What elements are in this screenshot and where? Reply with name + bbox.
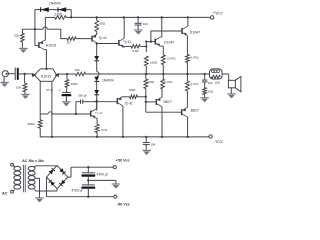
label 0.47 upper#1 xyxy=(167,57,176,61)
label B817 #2 xyxy=(191,108,199,112)
wire chain upper xyxy=(96,44,98,57)
wire Q8 collector to rail xyxy=(187,16,189,26)
ground (speaker) xyxy=(227,88,236,99)
wire 6.8 lower to node xyxy=(138,96,147,98)
wire inductor to speaker xyxy=(222,74,229,80)
wire output line d xyxy=(205,73,210,75)
wire Q2 collector down xyxy=(44,50,46,69)
transistor Q7 D1047 #1 xyxy=(155,37,160,47)
svg-text:AC 26v x 26v: AC 26v x 26v xyxy=(22,159,44,163)
svg-text:+: + xyxy=(59,88,61,92)
resistor 10K tail xyxy=(38,114,42,128)
transistor pair Q1 A1015 (hexagon) xyxy=(32,69,59,82)
svg-text:330 pf: 330 pf xyxy=(78,93,87,97)
wire 330pf right xyxy=(83,101,97,103)
wire Q3coll to Q4 base xyxy=(97,43,119,45)
svg-text:D1047: D1047 xyxy=(164,40,175,44)
wire base line B817#2 xyxy=(146,111,182,113)
wire 2K to Q3 base xyxy=(76,38,92,40)
label 27ohm xyxy=(101,128,107,132)
transistor Q6 Tp42 (lower driver) xyxy=(117,97,122,106)
label A1015 (Q2) xyxy=(46,44,56,48)
label 10K tail xyxy=(28,122,36,126)
terminal -Vcc xyxy=(209,135,212,138)
svg-text:AC: AC xyxy=(2,192,8,196)
resistor 0.47 upper#1 xyxy=(161,55,165,65)
wire Q6 emitter up xyxy=(123,96,130,98)
hop chain over output line xyxy=(97,72,99,77)
label 10ohm zobel xyxy=(207,89,213,93)
svg-text:0.47Ω: 0.47Ω xyxy=(167,57,176,61)
wire secondary top xyxy=(35,166,58,167)
label B817 #1 xyxy=(164,100,172,104)
svg-text:104: 104 xyxy=(143,22,148,26)
wire Q5 emitter down xyxy=(96,118,97,124)
wire bridge + output xyxy=(68,167,114,177)
inductor L1 with damping resistor xyxy=(210,69,223,79)
svg-text:10Ω: 10Ω xyxy=(214,80,220,84)
resistor 10K input bias xyxy=(23,74,27,92)
svg-text:27Ω: 27Ω xyxy=(101,128,107,132)
wire diode branch top xyxy=(35,9,71,11)
capacitor 104 (bottom rail) xyxy=(143,136,150,145)
terminal -50Vcc xyxy=(114,195,117,198)
wire psu mid to ground xyxy=(88,180,116,184)
wire 330pf left xyxy=(75,102,81,115)
wire Q3 emitter to 56ohm xyxy=(96,32,98,35)
wire Q9 emitter up xyxy=(161,89,163,97)
wire Q2 emitter to rail xyxy=(44,17,45,40)
resistor 270ohm (on +rail) xyxy=(55,16,66,20)
svg-text:10K: 10K xyxy=(16,85,21,89)
resistor 0.47 lower#2 xyxy=(186,74,190,91)
svg-text:100Ω: 100Ω xyxy=(70,82,78,86)
svg-text:A1015: A1015 xyxy=(46,44,56,48)
diode D1 1N4004 xyxy=(41,7,49,12)
label AC xyxy=(2,192,8,196)
svg-text:100: 100 xyxy=(74,68,79,72)
transistor Q3 Tp42 xyxy=(92,34,97,43)
wire pair right leg xyxy=(51,81,53,138)
wire 100ohm to outline xyxy=(145,66,147,75)
svg-text:10K: 10K xyxy=(14,34,19,38)
wire output line a xyxy=(67,73,76,75)
node column lower xyxy=(145,97,147,112)
wire Q2 base xyxy=(35,44,39,46)
capacitor 47uf xyxy=(61,87,71,96)
ground (center tap) xyxy=(35,198,44,203)
wire chain lower xyxy=(96,95,98,111)
transformer core xyxy=(24,165,26,193)
wire Q3 collector node xyxy=(96,42,98,44)
transistor Q2 A1015 xyxy=(39,40,44,49)
wire Q8 emitter to R047#2 xyxy=(186,36,188,55)
label 0.47 upper#2 xyxy=(190,55,199,59)
label 47uf xyxy=(46,88,61,93)
node column top x=146.3 xyxy=(145,40,147,52)
wire pair top stem xyxy=(45,68,47,70)
wire output line b xyxy=(86,73,147,75)
svg-text:0.47Ω: 0.47Ω xyxy=(190,82,199,86)
label 2K xyxy=(67,41,71,45)
wire feedback from pair xyxy=(59,73,68,75)
svg-text:Tp 42: Tp 42 xyxy=(125,101,133,105)
label 270ohm xyxy=(54,13,62,17)
wire pair left leg xyxy=(39,81,41,114)
wire +V rail left segment xyxy=(45,16,55,18)
bridge diode top-right xyxy=(59,168,65,174)
svg-text:4700 μf: 4700 μf xyxy=(71,189,82,193)
resistor 0.47 upper#2 xyxy=(186,55,190,63)
capacitor input coupling xyxy=(15,68,19,80)
label 56ohm xyxy=(100,22,106,26)
label 100ohm shunt xyxy=(70,82,78,86)
label 330pf xyxy=(78,93,87,97)
capacitor 104 (top rail) xyxy=(135,16,142,25)
wire Q7 collector to rail xyxy=(161,16,163,37)
capacitor 4700uf #2 xyxy=(81,180,95,197)
speaker xyxy=(228,77,241,92)
svg-text:1N4004: 1N4004 xyxy=(102,78,114,82)
label 10K input xyxy=(16,85,21,89)
label 0.47 lower#2 xyxy=(190,82,199,86)
label -50 Vcc xyxy=(117,202,130,206)
svg-text:+50 Vcc: +50 Vcc xyxy=(116,158,130,162)
svg-text:2K: 2K xyxy=(67,41,71,45)
wire diode-to-rail x=71.2 xyxy=(70,10,72,19)
label 100ohm lower xyxy=(147,80,155,84)
svg-text:0.47Ω: 0.47Ω xyxy=(164,80,173,84)
resistor 100 feedback xyxy=(76,72,86,76)
bridge diode bottom-left xyxy=(49,180,55,186)
ground (input jack) xyxy=(0,77,9,87)
resistor 10K (upper left) xyxy=(21,33,25,42)
wire cap to pair xyxy=(19,73,32,75)
svg-text:56Ω: 56Ω xyxy=(100,22,106,26)
ground (top 104) xyxy=(134,25,143,35)
label 100ohm upper xyxy=(150,61,158,65)
riser to D1047#2 base xyxy=(151,31,182,42)
label 10K (upper left) xyxy=(14,34,19,38)
svg-text:+VCC: +VCC xyxy=(213,10,224,15)
terminal +Vcc xyxy=(211,16,214,19)
transformer primary winding xyxy=(13,165,20,191)
wire Q10 collector down xyxy=(186,117,188,138)
label 6.8ohm lower xyxy=(129,88,136,92)
svg-text:A1015: A1015 xyxy=(41,74,51,78)
input jack xyxy=(2,71,8,77)
label +Vcc xyxy=(213,10,224,15)
label A1015 (pair) xyxy=(41,74,51,78)
wire base node to 2K xyxy=(35,27,67,39)
ground (zobel) xyxy=(200,95,209,103)
label 1N4004 (chain) xyxy=(102,78,114,82)
capacitor 330pf xyxy=(81,100,83,104)
svg-text:6.8Ω: 6.8Ω xyxy=(129,88,136,92)
transistor Q5 (VAS) xyxy=(91,109,96,119)
label Tp42 (Q6) xyxy=(125,101,133,105)
ground (below 10K upper left) xyxy=(19,42,28,53)
terminal +50Vcc xyxy=(113,166,116,169)
transistor Q4 Tp41 xyxy=(119,38,124,48)
label 104 (top) xyxy=(143,22,148,26)
label 6.8ohm upper xyxy=(132,49,139,53)
label D1047 #1 xyxy=(164,40,175,44)
wire Q7 emitter to R047 xyxy=(161,46,164,55)
label 0.47 lower#1 xyxy=(164,80,173,84)
resistor 2K xyxy=(67,37,76,41)
svg-text:1N4004: 1N4004 xyxy=(49,2,61,6)
label 4700uf #2 xyxy=(71,189,82,193)
wire +V rail xyxy=(66,16,210,18)
resistor 27ohm xyxy=(95,125,99,133)
resistor 56ohm xyxy=(95,21,99,32)
svg-text:820Ω: 820Ω xyxy=(28,122,36,126)
resistor 100ohm shunt xyxy=(65,74,69,87)
label 1N4004 (top) xyxy=(49,2,61,6)
label Q5 xyxy=(95,111,103,115)
svg-text:6.8Ω: 6.8Ω xyxy=(132,49,139,53)
transistor Q8 D1047 #2 xyxy=(182,26,187,36)
capacitor 104 zobel xyxy=(202,74,208,82)
diode Db 1N4004 xyxy=(94,77,99,82)
resistor 0.47 lower#1 xyxy=(161,74,165,89)
bridge rectifier diamond xyxy=(47,165,68,188)
svg-text:-50 Vcc: -50 Vcc xyxy=(117,202,130,206)
transformer secondary winding xyxy=(28,166,35,189)
wire jack to cap xyxy=(8,73,15,75)
wire bridge - output xyxy=(47,177,114,197)
ground (input 10K) xyxy=(21,92,30,99)
diode D2 1N4004 xyxy=(58,7,66,12)
label AC 26v x 26v xyxy=(22,159,44,163)
svg-text:D1047: D1047 xyxy=(190,31,201,35)
resistor 10ohm zobel xyxy=(203,82,207,95)
label 104 (bottom) xyxy=(150,143,155,147)
label Tp41 (Q4) xyxy=(123,40,131,44)
ground (47uf) xyxy=(62,96,71,106)
transistor Q9 B817 #1 xyxy=(156,97,161,106)
label 10ohm inductor xyxy=(214,80,220,84)
ground (bottom 104) xyxy=(142,145,151,155)
label 4700uf #1 xyxy=(97,172,108,176)
svg-text:0.47Ω: 0.47Ω xyxy=(190,55,199,59)
wire R047#1 to outline xyxy=(162,65,164,75)
wire secondary bottom xyxy=(35,189,58,191)
wire output line c xyxy=(146,73,206,75)
wire 10K top to base column xyxy=(22,28,36,33)
diode Da 1N4004 xyxy=(94,56,99,61)
wire Q4 emitter to 6.8ohm xyxy=(124,46,131,47)
wire Q5 base line xyxy=(40,112,90,114)
wire tail to rail xyxy=(39,128,41,137)
wire chain mid2 xyxy=(96,81,98,90)
svg-text:47 μf: 47 μf xyxy=(46,88,53,92)
wire center tap xyxy=(35,178,39,198)
diode Dc 1N4004 xyxy=(94,90,99,95)
wire Q10 emitter up xyxy=(186,91,188,108)
wire Q9 collector down xyxy=(161,107,163,139)
wire base line D1047#1 xyxy=(146,40,155,42)
svg-text:Tp 42: Tp 42 xyxy=(99,36,107,40)
resistor 100ohm upper xyxy=(144,56,148,66)
svg-text:104: 104 xyxy=(150,143,155,147)
bridge diode bottom-right xyxy=(59,180,65,186)
wire R047#2 to outline xyxy=(186,63,188,76)
resistor 100ohm lower xyxy=(144,73,148,97)
wire 56ohm to rail xyxy=(96,16,98,20)
label 100 (feedback res) xyxy=(74,68,79,72)
resistor 6.8ohm lower xyxy=(130,95,138,99)
ground (psu mid) xyxy=(112,184,121,189)
svg-text:B817: B817 xyxy=(164,100,172,104)
svg-text:Tp 42: Tp 42 xyxy=(95,111,103,115)
label Tp42 (Q3) xyxy=(99,36,107,40)
svg-text:4700 μf: 4700 μf xyxy=(97,172,108,176)
wire 27ohm to rail xyxy=(96,133,98,139)
label D1047 #2 xyxy=(190,31,201,35)
label -Vcc xyxy=(214,139,224,144)
wire Q6 collector down xyxy=(122,106,124,138)
wire lowdrv base xyxy=(97,101,118,103)
svg-text:Tp 41: Tp 41 xyxy=(123,40,131,44)
resistor 6.8ohm upper xyxy=(131,45,140,49)
svg-text:10Ω: 10Ω xyxy=(207,89,213,93)
wire node base-column x=34.9 xyxy=(34,10,36,46)
svg-text:B817: B817 xyxy=(191,108,199,112)
capacitor 4700uf #1 xyxy=(81,166,95,182)
svg-text:104: 104 xyxy=(208,81,213,85)
label 104 zobel xyxy=(208,81,213,85)
wire Q5 collector up xyxy=(96,101,98,109)
transistor Q10 B817 #2 xyxy=(182,108,187,117)
wire chain mid1 xyxy=(96,61,98,72)
wire 6.8 to node column xyxy=(140,45,147,47)
svg-text:-VCC: -VCC xyxy=(214,139,224,144)
svg-text:100Ω: 100Ω xyxy=(147,80,155,84)
bridge diode top-left xyxy=(49,168,55,174)
wire Q4 collector to rail xyxy=(123,16,125,38)
wire -V rail xyxy=(40,136,209,138)
label +50 Vcc xyxy=(116,158,130,162)
transformer T1 primary terminals xyxy=(11,163,14,193)
wire base line B817#1 xyxy=(146,101,157,103)
svg-text:100Ω: 100Ω xyxy=(150,61,158,65)
